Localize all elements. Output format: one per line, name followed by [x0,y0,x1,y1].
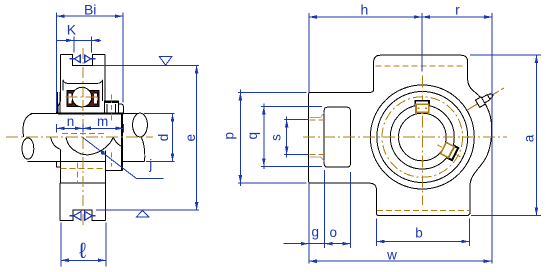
svg-text:ℓ: ℓ [79,238,87,263]
svg-text:o: o [329,225,337,240]
svg-text:g: g [311,225,319,240]
svg-text:r: r [455,2,460,18]
svg-text:d: d [156,134,171,142]
svg-text:q: q [245,132,260,140]
svg-text:h: h [361,2,369,18]
svg-text:w: w [386,248,397,263]
svg-text:e: e [183,134,198,142]
svg-text:K: K [67,21,77,37]
svg-text:a: a [522,134,537,142]
svg-text:s: s [269,134,284,141]
svg-text:Bi: Bi [84,1,96,17]
svg-text:p: p [221,132,236,140]
svg-text:j: j [148,157,152,172]
svg-text:m: m [97,114,108,129]
svg-text:b: b [415,225,423,240]
svg-text:n: n [67,114,75,129]
